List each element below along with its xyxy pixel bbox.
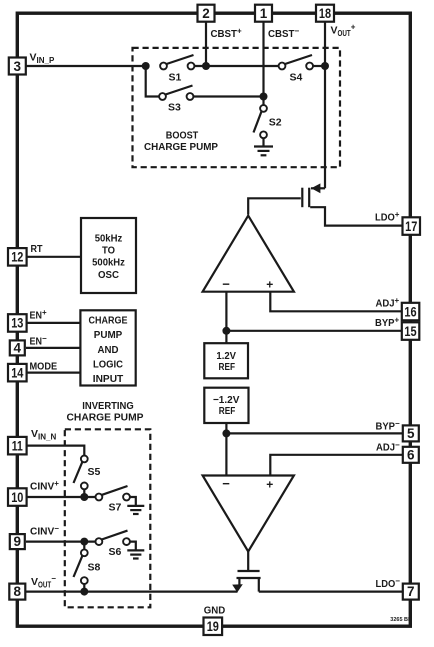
pin 6 box — [403, 447, 419, 463]
transistor Q2 NMOS channel bar — [237, 577, 261, 579]
wire EN+ pin13 to logic box — [26, 322, 80, 324]
junction node VOUT- — [80, 588, 88, 596]
junction node CBST- — [260, 93, 268, 101]
wire -1.2V REF to opamp2 minus input — [225, 423, 227, 477]
wire opamp2 output to NMOS gate — [247, 551, 249, 572]
ground symbol S6 — [127, 550, 144, 558]
svg-text:8: 8 — [14, 584, 22, 599]
1.2V reference box — [204, 343, 248, 378]
svg-text:7: 7 — [407, 584, 415, 599]
pin 5 box — [403, 425, 419, 441]
svg-text:11: 11 — [12, 438, 23, 453]
svg-text:CHARGE PUMP: CHARGE PUMP — [67, 411, 144, 423]
pin 13 box — [8, 314, 27, 332]
ground symbol S2 — [254, 147, 273, 156]
svg-text:5: 5 — [407, 426, 415, 441]
op-amp U1 (LDO+ error amp) — [203, 216, 294, 292]
svg-text:INVERTING: INVERTING — [82, 400, 134, 412]
pin 10 box — [8, 488, 27, 506]
wire ADJ+ pin16 to opamp1 plus input — [270, 291, 402, 311]
wire opamp1 output to PMOS gate — [248, 198, 301, 214]
svg-text:15: 15 — [404, 324, 417, 339]
boost charge pump dashed box — [133, 48, 341, 167]
svg-text:INPUT: INPUT — [93, 373, 124, 385]
oscillator box — [81, 218, 136, 293]
junction node VIN_P — [142, 62, 150, 70]
switch S4 lever — [285, 55, 312, 64]
pin 8 box — [9, 584, 25, 600]
pin 7 box — [403, 584, 419, 600]
wire S4 to VOUT+ node — [313, 65, 325, 67]
svg-text:+: + — [266, 278, 273, 292]
svg-text:18: 18 — [319, 6, 332, 21]
wire S3 to CBST- node — [193, 95, 264, 97]
switch S7 lever — [102, 486, 128, 495]
charge pump and logic input box — [80, 310, 135, 385]
wire ADJ- pin6 to opamp2 plus input — [270, 455, 402, 477]
wire CINV- pin9 to node — [26, 540, 96, 542]
switch S2 lever — [254, 111, 262, 133]
switch S1 terminals — [160, 63, 167, 70]
wire S7 stub to ground — [130, 497, 136, 506]
junction node CBST+ — [202, 62, 210, 70]
transistor Q1 PMOS arrow — [311, 183, 320, 193]
wire pin2 CBST+ vertical — [205, 21, 207, 66]
wire pin18 VOUT+ vertical to PMOS source — [324, 21, 326, 188]
pin 14 box — [8, 364, 27, 382]
ground symbol S7 — [127, 506, 144, 514]
svg-text:50kHz: 50kHz — [95, 233, 123, 245]
wire MODE pin14 to logic box — [26, 372, 80, 374]
-1.2V reference box — [204, 388, 248, 423]
switch S4 terminals — [279, 63, 286, 70]
svg-text:RT: RT — [31, 243, 43, 255]
pin 11 box — [8, 437, 27, 455]
switch S5 lever — [74, 462, 83, 484]
transistor Q2 NMOS drain stub — [238, 578, 240, 586]
switch S6 lever — [102, 531, 128, 540]
pin 4 box — [10, 340, 25, 355]
svg-text:500kHz: 500kHz — [92, 257, 125, 269]
svg-text:6: 6 — [407, 447, 415, 462]
svg-text:S2: S2 — [269, 117, 282, 129]
junction node BYP+ — [222, 327, 230, 335]
svg-text:4: 4 — [14, 341, 22, 356]
switch S1 lever — [167, 55, 194, 64]
svg-text:S6: S6 — [109, 546, 122, 558]
svg-text:S5: S5 — [88, 466, 101, 478]
svg-text:−: − — [222, 476, 230, 491]
svg-text:−: − — [222, 276, 230, 291]
wire RT pin12 to OSC — [26, 256, 81, 258]
svg-text:REF: REF — [219, 361, 236, 373]
switch S2 terminals — [260, 105, 267, 112]
wire VOUT- pin8 to NMOS drain — [26, 590, 238, 592]
switch S8 lever — [74, 555, 83, 577]
transistor Q2 NMOS source stub — [258, 578, 260, 592]
wire S6 stub to ground — [130, 542, 136, 550]
pin 12 box — [8, 248, 27, 266]
svg-text:10: 10 — [11, 490, 23, 505]
pin 18 box — [316, 5, 334, 22]
svg-text:9: 9 — [14, 534, 22, 549]
wire EN- pin4 to logic box — [26, 347, 80, 349]
svg-text:PUMP: PUMP — [94, 329, 123, 341]
op-amp U2 (LDO- error amp) — [203, 476, 294, 552]
svg-text:17: 17 — [405, 219, 417, 234]
svg-text:TO: TO — [102, 245, 115, 257]
junction node BYP- — [222, 429, 230, 437]
wire S1 to CBST+ node — [194, 65, 279, 67]
junction node CINV+ — [80, 493, 88, 501]
svg-text:+: + — [266, 478, 273, 492]
svg-text:1: 1 — [260, 6, 268, 21]
svg-text:CHARGE: CHARGE — [89, 315, 128, 327]
transistor Q2 NMOS gate bar — [238, 570, 260, 572]
pin 19 box — [204, 618, 223, 636]
junction node VOUT+/S4 — [321, 62, 329, 70]
svg-text:S3: S3 — [168, 101, 181, 113]
svg-text:19: 19 — [207, 619, 219, 634]
svg-text:GND: GND — [204, 605, 226, 617]
wire BYP+ node to pin15 — [226, 330, 402, 332]
wire node VIN_P down to S3 — [146, 66, 160, 97]
transistor Q1 PMOS channel bar — [308, 188, 310, 208]
wire CINV+ pin10 to node — [26, 496, 96, 498]
svg-text:3265 BD: 3265 BD — [390, 617, 412, 623]
pin 1 box — [255, 5, 272, 22]
svg-text:S1: S1 — [169, 72, 182, 84]
transistor Q1 PMOS gate bar — [301, 188, 303, 208]
svg-text:REF: REF — [219, 405, 236, 417]
svg-text:14: 14 — [11, 365, 24, 380]
svg-text:OSC: OSC — [98, 269, 119, 281]
svg-text:13: 13 — [11, 316, 24, 331]
svg-text:CHARGE PUMP: CHARGE PUMP — [144, 141, 218, 153]
svg-text:2: 2 — [202, 6, 210, 21]
switch S3 lever — [166, 86, 193, 95]
switch S8 terminals — [81, 549, 88, 556]
switch S6 terminals — [96, 538, 103, 545]
block titles — [67, 130, 274, 492]
svg-text:S4: S4 — [290, 71, 303, 83]
pin 9 box — [10, 534, 25, 549]
switch terminal circles — [81, 63, 313, 584]
wire pin1 CBST- vertical — [262, 21, 264, 97]
transistor Q1 PMOS source connection — [311, 187, 325, 189]
svg-text:AND: AND — [98, 344, 119, 356]
svg-text:12: 12 — [11, 250, 23, 265]
pin 16 box — [402, 303, 420, 321]
svg-text:S7: S7 — [109, 501, 122, 513]
svg-text:16: 16 — [404, 304, 417, 319]
wire CINV- node down to S8 — [83, 542, 85, 550]
wire S2 to ground — [262, 138, 264, 147]
svg-text:3: 3 — [14, 59, 22, 74]
switch S3 terminals — [159, 93, 166, 100]
wire CBST- node down to S2 — [262, 97, 264, 106]
inverting charge pump dashed box — [65, 429, 151, 607]
wire VIN_N pin11 to S5 — [26, 446, 84, 456]
svg-text:MODE: MODE — [30, 361, 58, 373]
svg-text:BOOST: BOOST — [166, 130, 199, 142]
switch labels — [88, 71, 303, 573]
wire PMOS drain to LDO+ pin17 — [310, 207, 402, 225]
pin 15 box — [402, 322, 420, 340]
junction node CINV- — [80, 538, 88, 546]
pin 17 box — [403, 217, 421, 235]
svg-text:S8: S8 — [88, 562, 101, 574]
wire BYP- node to pin5 — [226, 432, 402, 434]
wire S8 to VOUT- node — [83, 584, 85, 592]
wire VIN_P pin3 to node — [26, 65, 146, 67]
switch S5 terminals — [81, 456, 88, 463]
wire opamp1 minus input to 1.2V REF — [225, 291, 227, 343]
pin 3 box — [9, 58, 26, 75]
svg-text:LOGIC: LOGIC — [93, 359, 123, 371]
transistor Q2 NMOS arrow — [232, 584, 243, 592]
wire S5 to CINV+ node — [83, 489, 85, 497]
wire NMOS source to LDO- pin7 — [259, 590, 402, 592]
pin name labels — [30, 23, 401, 617]
switch S7 terminals — [96, 494, 103, 501]
pin 2 box — [198, 5, 215, 22]
